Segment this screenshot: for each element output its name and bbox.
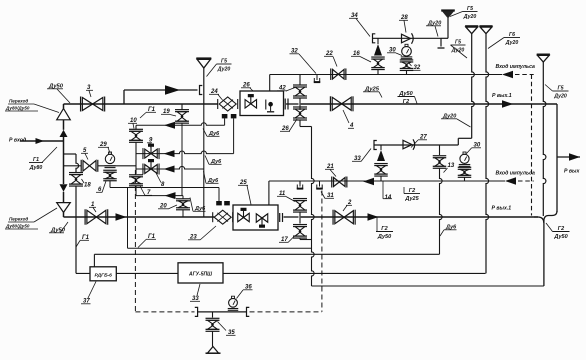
svg-text:18: 18 (84, 183, 91, 189)
svg-text:Р вых.1: Р вых.1 (492, 206, 512, 212)
svg-text:Р вых.1: Р вых.1 (492, 93, 512, 99)
svg-text:14: 14 (385, 195, 392, 201)
svg-text:Ду80: Ду80 (29, 165, 43, 171)
svg-text:Ду20: Ду20 (463, 14, 477, 20)
svg-text:Вход импульса: Вход импульса (496, 64, 536, 70)
svg-text:Вход импульса: Вход импульса (496, 171, 536, 177)
svg-text:Ду20: Ду20 (553, 94, 567, 100)
svg-text:Ду80/Ду50: Ду80/Ду50 (5, 106, 30, 111)
svg-text:Ду20: Ду20 (505, 40, 519, 46)
svg-text:13: 13 (448, 163, 455, 169)
svg-text:Р вход: Р вход (9, 138, 27, 144)
svg-text:РДГБ-6: РДГБ-6 (94, 273, 112, 279)
svg-text:Ду80/Ду50: Ду80/Ду50 (5, 224, 30, 229)
svg-text:Р вых: Р вых (564, 169, 580, 175)
svg-text:Ду50: Ду50 (553, 234, 567, 240)
svg-text:Переход: Переход (9, 217, 28, 222)
svg-text:Ду50: Ду50 (377, 234, 391, 240)
svg-text:Г2: Г2 (403, 99, 409, 105)
svg-text:Переход: Переход (9, 99, 28, 104)
svg-text:Ду25: Ду25 (404, 196, 419, 202)
svg-text:Ду20: Ду20 (217, 67, 231, 73)
svg-text:АГУ-5ПШ: АГУ-5ПШ (188, 272, 212, 278)
